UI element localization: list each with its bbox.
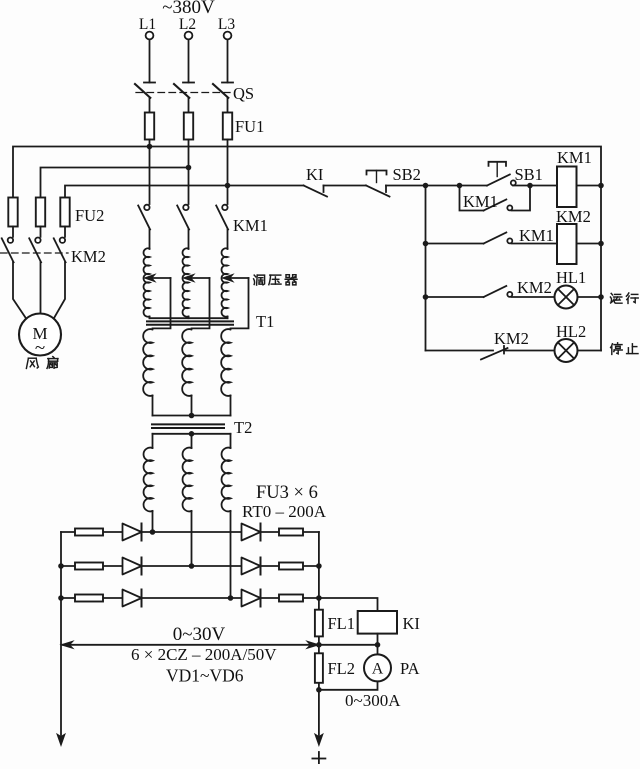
coil KM1 <box>557 167 577 208</box>
wire row1 to SB1 <box>426 185 488 187</box>
T2 primary winding phase 1 <box>143 329 152 396</box>
QS mechanical link (dashed) <box>136 92 230 94</box>
svg-text:KM1: KM1 <box>557 148 592 167</box>
svg-text:FL2: FL2 <box>328 659 356 678</box>
coil KM2 <box>512 243 558 245</box>
wire FU2 to KM2 pole 1 <box>12 227 14 237</box>
arrow 0-30V span <box>63 644 317 646</box>
fuse FL row 1 left <box>75 529 103 536</box>
wire QS to FU1 pole 2 <box>188 98 190 113</box>
wire to lamp HL1 <box>512 296 555 298</box>
wire L1 to QS <box>149 39 151 82</box>
svg-text:KM2: KM2 <box>556 207 591 226</box>
wire HL1 to rail <box>578 296 602 298</box>
terminal circle L2 <box>185 32 193 40</box>
arrow negative output <box>57 734 65 746</box>
contact KM2 (NO, row3) <box>484 286 507 297</box>
wire KM1 to T1 pole 2 <box>188 230 190 250</box>
contact KM2 (NC, row4) <box>481 348 508 360</box>
node right rail row1 <box>598 183 604 189</box>
SB1 actuator <box>489 162 507 166</box>
node phase A tap <box>147 144 153 150</box>
node row3 secondary tap <box>228 595 234 601</box>
diode VD row 3 left <box>123 590 142 607</box>
svg-text:QS: QS <box>233 84 254 103</box>
wire KM2 to motor mid <box>40 262 42 313</box>
svg-text:T1: T1 <box>256 312 274 331</box>
wire primary bottom 1 <box>152 396 154 416</box>
wire FU1 down pole 2 <box>188 140 190 205</box>
svg-text:FU3 × 6: FU3 × 6 <box>256 483 318 503</box>
arrow positive output <box>315 734 323 746</box>
svg-text:SB1: SB1 <box>515 165 543 184</box>
node rail row2 <box>423 241 429 247</box>
wire KM1 to T1 pole 1 <box>149 230 151 250</box>
contact KM1 main pole 3 <box>222 205 227 210</box>
wire wiper drop 1 <box>153 278 171 328</box>
fuse row 1 right <box>279 529 303 536</box>
diode VD row 3 right <box>242 590 261 607</box>
fuse FU1 pole 1 <box>145 113 154 140</box>
wire secondary 2 to row2 <box>191 511 193 566</box>
SB2 actuator <box>367 171 387 175</box>
svg-text:KI: KI <box>403 614 420 633</box>
contact KM1 main pole 1 <box>144 205 149 210</box>
svg-text:KM2: KM2 <box>494 329 529 348</box>
svg-text:0~30V: 0~30V <box>173 624 226 645</box>
svg-text:KM1: KM1 <box>463 192 498 211</box>
T1 wiper arrow phase 2 <box>191 277 210 279</box>
svg-text:KM2: KM2 <box>71 247 106 266</box>
label 调压器 (voltage regulator) <box>254 275 265 285</box>
pushbutton SB2 (stop, NC) <box>366 186 390 197</box>
wire positive bus <box>318 532 320 735</box>
svg-text:KM2: KM2 <box>517 278 552 297</box>
fuse FU2 pole 1 <box>8 198 17 227</box>
contact KM2 fan pole 1 <box>8 238 13 243</box>
svg-text:A: A <box>372 661 384 678</box>
node aux branch <box>457 183 463 189</box>
svg-text:RT0 – 200A: RT0 – 200A <box>242 502 327 521</box>
wire rectifier row 2 <box>61 565 319 567</box>
wire KM2 to motor left <box>13 262 27 320</box>
pushbutton SB1 (start, NO) <box>487 175 510 186</box>
wire negative bus <box>60 532 62 735</box>
diode VD row 1 left <box>123 524 142 541</box>
svg-text:6 × 2CZ – 200A/50V: 6 × 2CZ – 200A/50V <box>131 645 277 664</box>
node bus 0-30V tap <box>316 642 322 648</box>
diode VD row 2 right <box>242 558 261 575</box>
node right bus row2 <box>316 563 322 569</box>
svg-text:PA: PA <box>400 659 420 678</box>
wire KI to SB2 <box>324 185 367 187</box>
wire FU2 to KM2 pole 3 <box>64 227 66 237</box>
fuse row 3 right <box>279 595 303 602</box>
diode VD row 1 right <box>242 524 261 541</box>
diode VD row 2 left <box>123 558 142 575</box>
fuse FU2 pole 2 <box>36 198 45 227</box>
wire coil KM2 to rail <box>577 243 602 245</box>
node right rail row2 <box>598 241 604 247</box>
T1 wiper arrow phase 1 <box>152 277 171 279</box>
svg-text:T2: T2 <box>234 418 252 437</box>
KM2 mechanical link (dashed) <box>1 252 69 254</box>
T2 secondary winding phase 1 <box>152 434 154 448</box>
contact KM1 main pole 2 <box>183 205 188 210</box>
switch QS pole 1 <box>144 82 155 84</box>
node right bus row3/KI tap <box>316 595 322 601</box>
wire T2 primary bus <box>153 415 231 417</box>
wire PA bottom <box>319 681 378 689</box>
node right rail row3 <box>598 294 604 300</box>
wire primary bottom 3 <box>230 396 232 416</box>
wire rectifier row 1 <box>61 531 319 533</box>
svg-text:HL1: HL1 <box>556 268 586 287</box>
T2 secondary winding phase 3 <box>230 434 232 448</box>
wire winding bottom 1 <box>149 317 151 319</box>
wire bus line1 (phase A feed / control top) <box>13 147 601 351</box>
lamp HL2 <box>555 339 578 362</box>
wire FU1 down pole 1 <box>149 140 151 205</box>
svg-text:~: ~ <box>35 338 45 359</box>
fuse FU1 pole 2 <box>184 113 193 140</box>
wire wiper drop 3 <box>231 278 249 328</box>
wire primary bottom 2 <box>191 396 193 416</box>
contact KM1 aux (self-hold, NO) <box>460 186 484 211</box>
wire winding bottom 3 <box>227 317 229 319</box>
label 停止 (stop) <box>611 343 623 355</box>
shunt FL1 <box>315 610 323 637</box>
wire KI branch top <box>319 598 378 611</box>
wire QS to FU1 pole 3 <box>227 98 229 113</box>
wire coil KM1 to rail <box>577 185 602 187</box>
terminal circle L1 <box>146 32 154 40</box>
terminal circle L3 <box>224 32 232 40</box>
wire SB1 to coil KM1 <box>513 185 557 187</box>
node primary star <box>189 413 195 419</box>
contact KM2 fan pole 2 <box>35 238 40 243</box>
ammeter PA <box>364 654 391 681</box>
wire L3 to QS <box>227 39 229 82</box>
node row2 secondary tap <box>189 563 195 569</box>
fuse FU2 pole 3 <box>60 198 69 227</box>
wire KM2 to motor right <box>53 262 65 320</box>
wire bus line3 (phase C feed / control live) <box>65 186 304 198</box>
wire rectifier row 3 <box>61 597 319 599</box>
plus terminal <box>312 758 325 760</box>
wire T2 secondary bus <box>153 433 231 435</box>
T1 regulator winding phase 1 <box>144 248 150 317</box>
shunt FL2 <box>315 653 323 683</box>
wire row3 <box>426 296 484 298</box>
wire KM1 to T1 pole 3 <box>227 230 229 250</box>
wire secondary 1 to row1 <box>152 511 154 532</box>
wire KI bottom <box>319 634 378 645</box>
svg-text:FU2: FU2 <box>75 206 104 225</box>
fuse FL row 3 left <box>75 595 103 602</box>
svg-text:KM1: KM1 <box>519 226 554 245</box>
svg-text:FU1: FU1 <box>235 117 264 136</box>
node aux rejoin <box>527 183 533 189</box>
wire PA top <box>377 645 379 655</box>
svg-text:VD1~VD6: VD1~VD6 <box>166 666 244 686</box>
lamp HL1 <box>555 286 578 309</box>
wire secondary 3 to row3 <box>230 511 232 598</box>
svg-text:L1: L1 <box>139 16 156 33</box>
wire QS to FU1 pole 1 <box>149 98 151 113</box>
wire FU2 to KM2 pole 2 <box>40 227 42 237</box>
wire control left rail <box>425 186 427 351</box>
wire T1 star bus <box>150 317 228 319</box>
node left rail top <box>423 183 429 189</box>
wire wiper drop 2 <box>192 278 210 328</box>
svg-text:KM1: KM1 <box>233 216 268 235</box>
relay coil KI <box>358 611 397 634</box>
svg-text:KI: KI <box>306 165 323 184</box>
svg-text:HL2: HL2 <box>556 322 586 341</box>
fuse row 2 right <box>279 563 303 570</box>
fuse FU1 pole 3 <box>223 113 232 140</box>
label 风扇 (fan) <box>26 358 38 368</box>
wire winding bottom 2 <box>188 317 190 319</box>
node bus below FL2 <box>316 687 322 693</box>
svg-text:0~300A: 0~300A <box>345 691 401 710</box>
T2 primary winding phase 2 <box>182 329 191 396</box>
node KI/PA junction <box>375 642 381 648</box>
wire HL2 to rail <box>578 350 602 352</box>
T1 wiper arrow phase 3 <box>230 277 249 279</box>
T1 core <box>147 320 233 322</box>
contact KI (overcurrent, NC) <box>304 186 328 197</box>
contact KM1 (NO, row2) <box>484 233 507 244</box>
wire FU1 down pole 3 <box>227 140 229 205</box>
svg-text:L3: L3 <box>218 16 235 33</box>
svg-text:SB2: SB2 <box>393 165 421 184</box>
switch QS pole 3 <box>222 82 233 84</box>
svg-text:FL1: FL1 <box>328 614 356 633</box>
node left bus row3 <box>58 595 64 601</box>
T2 secondary winding phase 2 <box>191 434 193 448</box>
wire L2 to QS <box>188 39 190 82</box>
T1 regulator winding phase 3 <box>222 248 228 317</box>
T1 regulator winding phase 2 <box>183 248 189 317</box>
T2 core <box>152 423 224 425</box>
switch QS pole 2 <box>183 82 194 84</box>
wire to lamp HL2 <box>504 350 555 352</box>
wire SB2 to rail <box>386 185 426 187</box>
node phase C tap <box>225 183 231 189</box>
wire row4 <box>426 350 494 352</box>
wire row2 <box>426 243 484 245</box>
svg-text:L2: L2 <box>179 16 196 33</box>
node left bus row2 <box>58 563 64 569</box>
label 运行 (running) <box>610 293 622 303</box>
T2 primary winding phase 3 <box>221 329 230 396</box>
node rail row3 <box>423 294 429 300</box>
fuse FL row 2 left <box>75 563 103 570</box>
motor M fan <box>19 314 61 356</box>
node phase B tap <box>186 165 192 171</box>
contact KM2 fan pole 3 <box>60 238 65 243</box>
wire bus line2 (phase B feed) <box>41 168 189 198</box>
node row1 secondary tap <box>150 529 156 535</box>
node secondary star <box>189 431 195 437</box>
